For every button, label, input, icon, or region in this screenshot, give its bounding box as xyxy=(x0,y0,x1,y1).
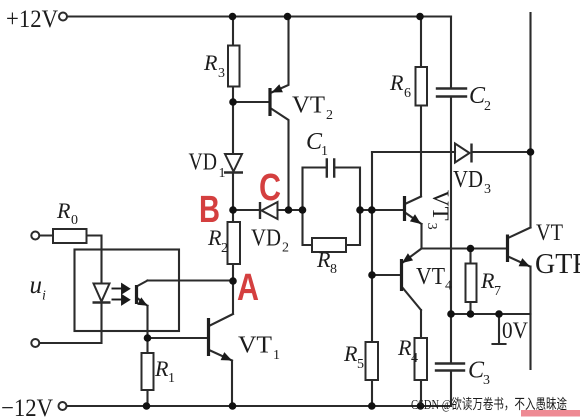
svg-text:8: 8 xyxy=(330,262,337,277)
svg-text:GTR: GTR xyxy=(535,249,580,280)
svg-text:VT: VT xyxy=(416,264,445,290)
svg-text:i: i xyxy=(42,289,46,304)
svg-text:2: 2 xyxy=(221,241,228,256)
svg-text:B: B xyxy=(199,189,220,231)
svg-text:1: 1 xyxy=(168,371,175,386)
svg-text:1: 1 xyxy=(321,144,328,159)
svg-text:A: A xyxy=(237,267,259,309)
svg-text:2: 2 xyxy=(282,241,289,256)
svg-text:1: 1 xyxy=(219,166,226,181)
svg-text:R: R xyxy=(154,356,169,381)
svg-text:R: R xyxy=(56,198,71,223)
svg-text:0V: 0V xyxy=(502,318,528,343)
svg-text:3: 3 xyxy=(218,66,225,81)
svg-text:2: 2 xyxy=(326,108,333,123)
svg-text:R: R xyxy=(389,70,404,95)
svg-text:7: 7 xyxy=(494,284,501,299)
svg-text:R: R xyxy=(316,247,331,272)
svg-text:0: 0 xyxy=(71,213,78,228)
svg-text:R: R xyxy=(203,50,218,75)
svg-text:−12V: −12V xyxy=(1,395,53,418)
svg-text:2: 2 xyxy=(484,99,491,114)
svg-text:VD: VD xyxy=(251,226,281,252)
svg-text:4: 4 xyxy=(445,279,452,294)
svg-text:3: 3 xyxy=(483,373,490,388)
svg-text:VT: VT xyxy=(238,333,272,359)
svg-text:VD: VD xyxy=(189,150,218,176)
svg-text:4: 4 xyxy=(411,351,418,366)
svg-text:u: u xyxy=(30,272,43,299)
svg-text:1: 1 xyxy=(273,348,280,363)
svg-text:5: 5 xyxy=(357,357,364,372)
svg-text:+12V: +12V xyxy=(6,6,58,33)
svg-text:VT: VT xyxy=(536,220,563,245)
svg-text:R: R xyxy=(397,335,412,360)
svg-text:R: R xyxy=(343,341,358,366)
svg-text:R: R xyxy=(480,268,495,293)
svg-text:VT: VT xyxy=(292,93,325,119)
svg-text:VD: VD xyxy=(453,167,483,193)
svg-text:C: C xyxy=(259,167,281,209)
svg-text:3: 3 xyxy=(484,182,491,197)
svg-text:6: 6 xyxy=(404,86,411,101)
